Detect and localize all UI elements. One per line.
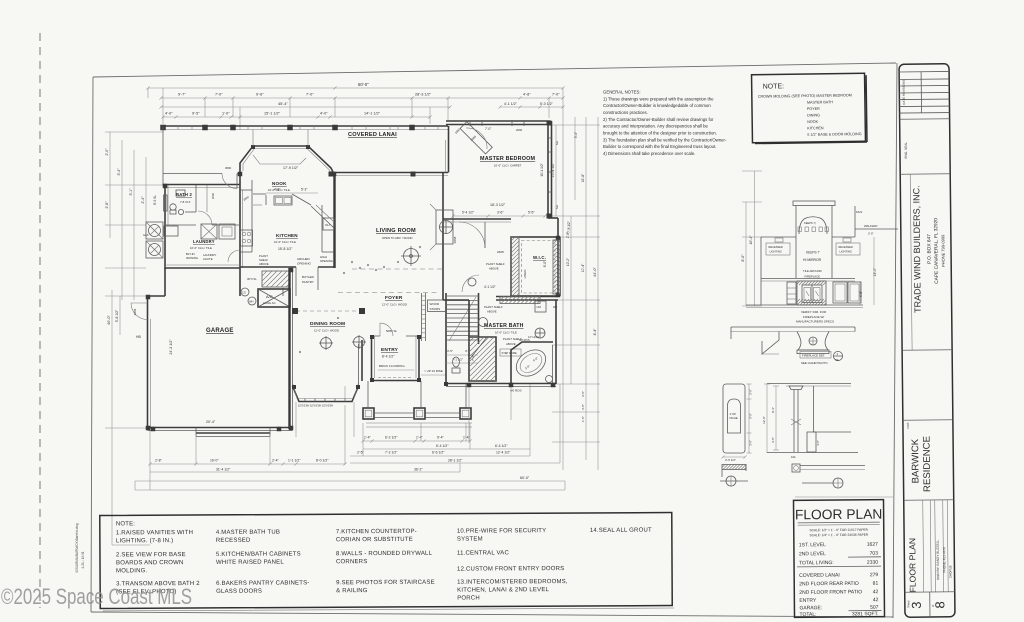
hall closet door arc (462, 275, 479, 292)
svg-text:NOOK: NOOK (807, 120, 818, 124)
dining room cased opening (296, 310, 360, 312)
staircase (445, 293, 447, 344)
svg-text:12'-0" CLG / WOOD: 12'-0" CLG / WOOD (382, 303, 407, 307)
garage door recess (196, 432, 270, 434)
left dim lines upper (109, 132, 111, 238)
svg-text:CORNERS: CORNERS (336, 559, 367, 565)
wall kitchen bottom with arched opening (240, 266, 296, 268)
wall garage right (288, 268, 290, 429)
svg-text:13.INTERCOM/STEREO BEDROOMS,: 13.INTERCOM/STEREO BEDROOMS, (457, 579, 568, 586)
svg-text:7'-2 1/2": 7'-2 1/2" (385, 451, 398, 455)
drawing name rows (922, 500, 925, 592)
svg-text:ENG. SEAL: ENG. SEAL (904, 142, 908, 159)
linen box (535, 301, 546, 312)
niche detail (720, 384, 753, 486)
svg-text:4'-1 1/2": 4'-1 1/2" (504, 102, 518, 106)
wall dining right / entry left (361, 340, 363, 381)
svg-text:3'-1": 3'-1" (129, 188, 133, 196)
svg-text:KITCHEN: KITCHEN (807, 126, 824, 130)
svg-text:7'-0": 7'-0" (552, 93, 560, 97)
svg-text:MASTER BEDROOM: MASTER BEDROOM (480, 156, 536, 162)
dim line top row 4 (163, 116, 430, 118)
svg-text:10.PRE-WIRE FOR SECURITY: 10.PRE-WIRE FOR SECURITY (457, 528, 547, 534)
svg-text:5'-8 1/2": 5'-8 1/2" (115, 309, 119, 322)
fireplace detail callout (800, 352, 831, 359)
bath2 fixtures (170, 204, 176, 210)
porch side lines (367, 381, 369, 408)
svg-text:12'-4 1/2": 12'-4 1/2" (496, 451, 511, 455)
svg-text:2.SEE VIEW FOR BASE: 2.SEE VIEW FOR BASE (116, 552, 186, 558)
svg-text:2ND FLOOR REAR PATIO: 2ND FLOOR REAR PATIO (799, 581, 859, 588)
svg-text:3'-5": 3'-5" (447, 349, 453, 353)
svg-text:8'-4": 8'-4" (593, 328, 597, 336)
svg-text:10'-4": 10'-4" (581, 263, 585, 272)
walk-in closet walls (511, 237, 558, 296)
svg-text:DINING ROOM: DINING ROOM (310, 321, 345, 327)
svg-text:9'-4": 9'-4" (771, 407, 775, 413)
svg-text:MOLDING.: MOLDING. (116, 568, 147, 574)
wall bath2 block left (164, 185, 166, 269)
wall lanai right / master bedroom left (448, 126, 450, 173)
svg-text:DINING: DINING (807, 113, 820, 117)
entry door arc to foyer (380, 323, 393, 336)
vanity sinks (479, 318, 488, 327)
wall master bath top (443, 299, 469, 301)
svg-text:PHONE 453-4470: PHONE 453-4470 (942, 547, 946, 573)
svg-text:4/0 ROS: 4/0 ROS (510, 389, 522, 393)
wall lanai left edge (162, 126, 164, 186)
svg-text:7'-0": 7'-0" (306, 93, 314, 97)
svg-text:SCALE: 1/2" = 1' - 0" FOR 11X1: SCALE: 1/2" = 1' - 0" FOR 11X17 PAPER (809, 528, 868, 533)
svg-text:2'-8": 2'-8" (105, 201, 109, 209)
sheet border top (93, 63, 896, 77)
kitchen range (241, 230, 253, 246)
svg-text:KEEPS 7': KEEPS 7' (806, 251, 820, 255)
dim ticks row3 (159, 105, 162, 108)
svg-text:5 1/2" BASE & DOOR MOLDING: 5 1/2" BASE & DOOR MOLDING (807, 132, 861, 137)
fireplace chimney (793, 201, 835, 206)
svg-text:1'-4": 1'-4" (463, 436, 471, 440)
svg-text:LIGHTING: LIGHTING (840, 250, 852, 254)
mantel counter line (761, 278, 855, 280)
wood stairs label (428, 300, 447, 312)
svg-text:GAS: GAS (143, 233, 149, 237)
svg-text:14.SEAL ALL GROUT: 14.SEAL ALL GROUT (590, 528, 652, 534)
svg-text:WALKWAY: WALKWAY (864, 224, 878, 228)
svg-text:PHONE 799-0999: PHONE 799-0999 (940, 234, 945, 267)
dining bay window (293, 386, 359, 402)
svg-text:4) Dimensions shall take prece: 4) Dimensions shall take precedence over… (603, 151, 695, 156)
nook bay window walls (240, 146, 334, 174)
svg-text:279: 279 (870, 572, 879, 578)
svg-text:2) The Contractor/Owner-Builde: 2) The Contractor/Owner-Builder shall re… (603, 117, 714, 122)
laundry door arc (228, 250, 240, 262)
svg-text:15'-8 1/2": 15'-8 1/2" (278, 247, 293, 251)
svg-text:W.I.C.: W.I.C. (533, 255, 546, 260)
svg-text:VERIFY DIM. FOR: VERIFY DIM. FOR (801, 310, 827, 314)
bath2 inner walls (195, 185, 197, 212)
top dim droppers row2 (204, 98, 206, 117)
svg-text:6'-6 1/2": 6'-6 1/2" (432, 451, 445, 455)
svg-text:2'-8": 2'-8" (155, 458, 163, 462)
svg-text:IRONING: IRONING (186, 256, 198, 260)
svg-text:4'-8": 4'-8" (523, 93, 531, 97)
fireplace right dims (859, 281, 861, 305)
detail callout circle bottom (802, 482, 833, 484)
svg-text:16'-0": 16'-0" (210, 458, 219, 462)
fireplace base left shelves (787, 282, 796, 304)
sheet border left (91, 77, 93, 612)
master tub (511, 342, 553, 384)
svg-text:5.KITCHEN/BATH CABINETS: 5.KITCHEN/BATH CABINETS (216, 551, 301, 557)
svg-text:DATE REVISIONS: DATE REVISIONS (902, 80, 906, 105)
svg-text:4/0 ROS: 4/0 ROS (519, 338, 530, 342)
svg-text:17'-9 1/2": 17'-9 1/2" (283, 166, 299, 170)
svg-text:PANTRY: PANTRY (302, 280, 314, 284)
svg-text:4'-0": 4'-0" (320, 112, 328, 116)
svg-text:SYSTEM: SYSTEM (457, 536, 483, 542)
svg-text:30"0 SL: 30"0 SL (247, 277, 257, 281)
porch step line (366, 426, 472, 428)
svg-text:5'-6": 5'-6" (749, 413, 753, 419)
svg-text:P.O. BOX 647: P.O. BOX 647 (926, 234, 932, 264)
nook bay connectors to lanai wall (252, 130, 254, 147)
wall master bath bottom (446, 383, 556, 385)
svg-text:12'-0": 12'-0" (762, 416, 766, 424)
svg-text:SH: SH (555, 205, 559, 209)
svg-text:14'-1 1/2": 14'-1 1/2" (364, 112, 381, 116)
svg-text:5E: 5E (836, 358, 839, 362)
svg-text:HI MIRROR: HI MIRROR (803, 258, 822, 262)
svg-text:NICHE: NICHE (730, 416, 738, 420)
svg-text:81: 81 (873, 581, 879, 587)
svg-text:2'-0": 2'-0" (868, 232, 874, 236)
svg-text:4-21-: 19:31: 4-21-: 19:31 (81, 551, 85, 568)
svg-text:10'-0" CLG / CARPET: 10'-0" CLG / CARPET (494, 164, 522, 168)
bath top hatch (500, 297, 540, 304)
svg-text:1'-4": 1'-4" (416, 436, 424, 440)
chair rail detail (792, 464, 800, 472)
living room ceiling fan (404, 249, 419, 264)
svg-text:6'-4 1/2": 6'-4 1/2" (495, 444, 508, 448)
svg-text:ABOVE: ABOVE (489, 267, 499, 271)
svg-text:BRICK FLOORING: BRICK FLOORING (379, 364, 405, 368)
svg-text:18'-3 1/2": 18'-3 1/2" (490, 203, 506, 207)
svg-text:LIGHTING. (7-8 IN.): LIGHTING. (7-8 IN.) (116, 538, 174, 544)
svg-text:7.KITCHEN COUNTERTOP-: 7.KITCHEN COUNTERTOP- (336, 529, 417, 535)
wall garage bottom (148, 427, 293, 429)
sheet border bottom (91, 612, 893, 617)
svg-text:COVERED LANAI: COVERED LANAI (799, 572, 840, 578)
svg-text:3) The foundation plan shall b: 3) The foundation plan shall be verified… (603, 137, 727, 142)
wall master bath left (468, 300, 470, 337)
svg-text:6'-2 1/2": 6'-2 1/2" (385, 436, 398, 440)
svg-text:10'-2": 10'-2" (566, 258, 570, 266)
svg-text:1'-4": 1'-4" (364, 436, 372, 440)
bottom notes box (100, 512, 674, 611)
dim line top row 2 (161, 97, 563, 99)
svg-text:ARCHED: ARCHED (297, 257, 311, 261)
niche detail callout circle (726, 476, 736, 486)
svg-text:10'-0" CLG / TILE: 10'-0" CLG / TILE (190, 246, 212, 250)
svg-text:CORIAN OR SUBSTITUTE: CORIAN OR SUBSTITUTE (336, 537, 413, 543)
svg-text:28'-1 1/2": 28'-1 1/2" (448, 458, 463, 462)
svg-text:STEP DOME: STEP DOME (502, 351, 517, 355)
svg-text:10'-0" CLG / TILE: 10'-0" CLG / TILE (495, 331, 517, 335)
svg-text:7'-0": 7'-0" (215, 93, 223, 97)
wall master bedroom right (547, 121, 549, 218)
svg-text:ABOVE: ABOVE (259, 262, 269, 266)
wall pantry corridor (239, 268, 241, 296)
dim line top row 3 (161, 106, 450, 108)
toilet (453, 357, 460, 367)
svg-text:4' OP.: 4' OP. (730, 412, 737, 416)
svg-text:5'-5": 5'-5" (528, 210, 535, 214)
kitchen top counter edge (253, 193, 266, 195)
wall kitchen right (333, 174, 335, 268)
wall garage left (147, 296, 149, 429)
svg-text:LIVING ROOM: LIVING ROOM (376, 228, 416, 234)
wall entry (371, 336, 373, 381)
svg-text:3'-4": 3'-4" (117, 168, 121, 176)
svg-text:7-8 VLT.: 7-8 VLT. (180, 200, 191, 204)
svg-text:HB: HB (136, 335, 141, 339)
sheet number boxes (929, 592, 931, 617)
svg-text:1'-0": 1'-0" (222, 112, 230, 116)
svg-text:TOTAL LIVING:: TOTAL LIVING: (799, 560, 834, 566)
wall master bedroom top (446, 120, 550, 122)
foyer open-to-above dashed lines (352, 268, 443, 270)
A/C pads outside left wall (146, 222, 163, 239)
svg-text:GLASS DOORS: GLASS DOORS (216, 589, 262, 595)
svg-text:8: 8 (932, 601, 947, 608)
svg-text:3'-4": 3'-4" (574, 132, 578, 138)
dim line 60'-0 overall top (148, 87, 563, 89)
svg-text:1627: 1627 (867, 542, 878, 548)
svg-text:45'-4": 45'-4" (278, 102, 288, 106)
svg-text:2'-0": 2'-0" (749, 389, 753, 395)
svg-text:WHITE RAISED PANEL: WHITE RAISED PANEL (216, 560, 284, 566)
svg-text:CM: CM (537, 305, 542, 309)
svg-text:507: 507 (870, 605, 879, 611)
column shaft (793, 390, 795, 453)
svg-text:RECESSED: RECESSED (769, 245, 783, 249)
svg-text:8'-4 1/2": 8'-4 1/2" (382, 355, 395, 359)
column right wall (813, 386, 815, 432)
svg-text:PLANT SHELF: PLANT SHELF (484, 305, 503, 309)
svg-text:KEEPS 7|: KEEPS 7| (804, 221, 816, 225)
svg-text:10L: 10L (791, 455, 796, 459)
column top beam (767, 383, 851, 385)
right dim lines (555, 125, 557, 216)
svg-text:2'-4": 2'-4" (272, 458, 280, 462)
fireplace elevation group (731, 171, 898, 365)
svg-text:ABOVE: ABOVE (487, 310, 497, 314)
svg-text:ENTRY: ENTRY (381, 347, 399, 353)
A/C closet (258, 289, 290, 307)
master bedroom door arc (459, 222, 485, 248)
svg-text:RECESSED: RECESSED (216, 538, 251, 544)
svg-text:16'-8": 16'-8" (581, 173, 585, 182)
master bedroom interior dim (453, 215, 545, 217)
svg-text:60'-0": 60'-0" (520, 476, 530, 480)
svg-text:2'-0": 2'-0" (105, 148, 109, 156)
svg-text:BUTLER: BUTLER (302, 275, 315, 279)
wall kitchen left (239, 173, 241, 268)
svg-text:MASTER BATH: MASTER BATH (484, 323, 524, 329)
svg-text:DWN BY: RANDY BUZZELL: DWN BY: RANDY BUZZELL (936, 539, 940, 580)
svg-text:LINEN: LINEN (523, 270, 527, 279)
wall covered lanai top (163, 125, 448, 127)
svg-text:44'-0": 44'-0" (593, 267, 597, 277)
svg-text:8'-0": 8'-0" (741, 254, 745, 262)
svg-text:TILE AROUND: TILE AROUND (803, 269, 822, 273)
svg-text:SCALE: 1/4" = 1' - 0" FOR 24X3: SCALE: 1/4" = 1' - 0" FOR 24X36 PAPER (809, 533, 868, 538)
svg-text:12.CUSTOM FRONT ENTRY DOORS: 12.CUSTOM FRONT ENTRY DOORS (457, 566, 564, 573)
svg-text:2868: 2868 (133, 308, 137, 315)
svg-text:ABOVE: ABOVE (506, 342, 516, 346)
svg-text:3'-5": 3'-5" (581, 404, 585, 410)
svg-text:3'-5": 3'-5" (581, 391, 585, 397)
svg-text:8'-0 1/2": 8'-0 1/2" (316, 458, 329, 462)
svg-text:42: 42 (873, 597, 879, 603)
svg-text:40'-0": 40'-0" (107, 315, 111, 325)
svg-text:FIREPLACE W/: FIREPLACE W/ (803, 315, 824, 319)
walkway line right (854, 206, 856, 237)
mantel section detail (731, 326, 855, 328)
svg-text:FLOOR PLAN: FLOOR PLAN (795, 507, 883, 523)
fireplace base right cabinet (833, 282, 847, 303)
svg-text:Builder to correspond with the: Builder to correspond with the final Eng… (603, 144, 716, 149)
svg-text:6.BAKERS PANTRY CABINETS-: 6.BAKERS PANTRY CABINETS- (216, 580, 309, 586)
svg-text:42: 42 (873, 589, 879, 595)
svg-text:& RAILING: & RAILING (336, 588, 368, 594)
scan speckles living room (351, 261, 353, 263)
svg-text:3'-0": 3'-0" (749, 440, 753, 446)
wic hatched wall (511, 237, 519, 296)
dining chandelier (321, 338, 332, 349)
kitchen right counter and oven (321, 205, 323, 252)
crown molding note box (752, 73, 867, 143)
fireplace ceiling lines (761, 236, 796, 238)
column detail (762, 384, 865, 489)
svg-text:8.WALLS - ROUNDED DRYWALL: 8.WALLS - ROUNDED DRYWALL (336, 551, 433, 558)
stair left rail (421, 293, 423, 341)
svg-text:10'-4": 10'-4" (749, 235, 753, 245)
svg-text:WH: WH (249, 300, 253, 304)
wall living room top / lanai bottom (331, 172, 448, 174)
fireplace elev left dims (745, 202, 747, 306)
svg-text:1ST. LEVEL: 1ST. LEVEL (799, 542, 826, 548)
svg-text:SH: SH (555, 141, 559, 145)
wall master bedroom to wic jog (548, 217, 558, 219)
column capital (789, 386, 803, 390)
dim droppers top (162, 88, 164, 124)
svg-text:2HOPLB: 2HOPLB (948, 565, 952, 578)
porch beams (374, 412, 414, 414)
svg-text:9'-4": 9'-4" (437, 436, 445, 440)
svg-text:2868: 2868 (453, 236, 457, 243)
svg-text:3'-5": 3'-5" (771, 437, 775, 443)
svg-text:PORCH: PORCH (457, 596, 480, 602)
svg-text:9'-7": 9'-7" (178, 93, 186, 97)
svg-text:703: 703 (870, 551, 879, 557)
svg-text:36'-2": 36'-2" (414, 467, 423, 471)
svg-text:9'-5": 9'-5" (192, 112, 200, 116)
wall master bath right (555, 300, 557, 384)
bottom dim droppers (149, 430, 151, 490)
svg-text:60'-0": 60'-0" (358, 82, 369, 87)
svg-text:KITCHEN: KITCHEN (276, 233, 298, 238)
wall lanai bottom over bath2 (163, 173, 222, 175)
revision table (899, 70, 949, 73)
svg-text:FLOOR PLAN: FLOOR PLAN (907, 538, 918, 593)
svg-text:10'-4 1/2": 10'-4 1/2" (540, 163, 544, 176)
svg-text:1'-1 1/2": 1'-1 1/2" (288, 458, 301, 462)
svg-text:SEE CHAIR PHOTO: SEE CHAIR PHOTO (801, 361, 828, 365)
svg-text:5'-3": 5'-3" (301, 188, 307, 192)
svg-text:CO: CO (242, 291, 246, 295)
floor plan area table (793, 500, 884, 618)
svg-text:Contractor/Owner-Builder is kn: Contractor/Owner-Builder is knowledgedab… (603, 103, 711, 108)
svg-text:STAIRS: STAIRS (430, 307, 441, 311)
faint fold line above table (795, 496, 893, 498)
svg-text:NOTE:: NOTE: (116, 521, 135, 527)
svg-text:9.SEE PHOTOS FOR STAIRCASE: 9.SEE PHOTOS FOR STAIRCASE (336, 580, 435, 587)
bottom dim rows (363, 440, 470, 442)
svg-text:FOR:: FOR: (906, 422, 910, 429)
nook dims (266, 192, 318, 194)
fireplace floor line (746, 304, 863, 306)
svg-text:7'-4": 7'-4" (471, 355, 475, 361)
svg-text:2ND FLOOR FRONT PATIO: 2ND FLOOR FRONT PATIO (799, 589, 862, 596)
svg-text:31'-4 1/2": 31'-4 1/2" (216, 467, 231, 471)
svg-text:2'-4": 2'-4" (141, 196, 145, 204)
smoke/co detectors (241, 288, 249, 296)
garage entry door from side (131, 303, 148, 320)
svg-text:TRADE WIND BUILDERS, INC.: TRADE WIND BUILDERS, INC. (911, 185, 922, 313)
svg-text:RECESSED: RECESSED (839, 245, 853, 249)
svg-text:8'-9 SL: 8'-9 SL (153, 195, 157, 205)
svg-text:OPEN TO ABV. / WOOD: OPEN TO ABV. / WOOD (382, 236, 413, 240)
svg-text:> UP 19 RISE: > UP 19 RISE (424, 369, 443, 373)
wall laundry bottom (165, 267, 240, 269)
svg-text:4'-6": 4'-6" (859, 291, 863, 297)
svg-text:28'-3 1/2": 28'-3 1/2" (415, 93, 432, 97)
svg-text:©2025 Space Coast MLS: ©2025 Space Coast MLS (1, 584, 192, 609)
svg-text:MANUFACTURERS SPECS: MANUFACTURERS SPECS (796, 320, 834, 324)
svg-text:KILN: KILN (856, 210, 862, 214)
perimeter wall posts (163, 184, 168, 189)
svg-text:15'-1 1/2": 15'-1 1/2" (264, 112, 281, 116)
wall bath2 top (163, 184, 240, 186)
svg-text:11.CENTRAL VAC: 11.CENTRAL VAC (457, 550, 510, 556)
laundry appliances (201, 224, 217, 239)
bakers pantry cabinet (262, 271, 290, 287)
svg-text:3281 SQFT.: 3281 SQFT. (852, 611, 879, 617)
svg-text:ENTRY: ENTRY (799, 598, 817, 604)
svg-text:3'-0": 3'-0" (816, 440, 820, 446)
svg-text:7'-8 1/2": 7'-8 1/2" (567, 221, 571, 233)
svg-text:3'-6": 3'-6" (497, 210, 504, 214)
svg-text:COVERED LANAI: COVERED LANAI (348, 132, 397, 138)
svg-text:4.MASTER BATH TUB: 4.MASTER BATH TUB (216, 530, 280, 536)
svg-text:BOARDS AND CROWN: BOARDS AND CROWN (116, 560, 184, 566)
stair hall walls (442, 268, 444, 293)
lanai door arc at bath2 (222, 174, 237, 189)
svg-text:WOOD: WOOD (430, 302, 440, 306)
svg-text:2660: 2660 (211, 192, 215, 199)
